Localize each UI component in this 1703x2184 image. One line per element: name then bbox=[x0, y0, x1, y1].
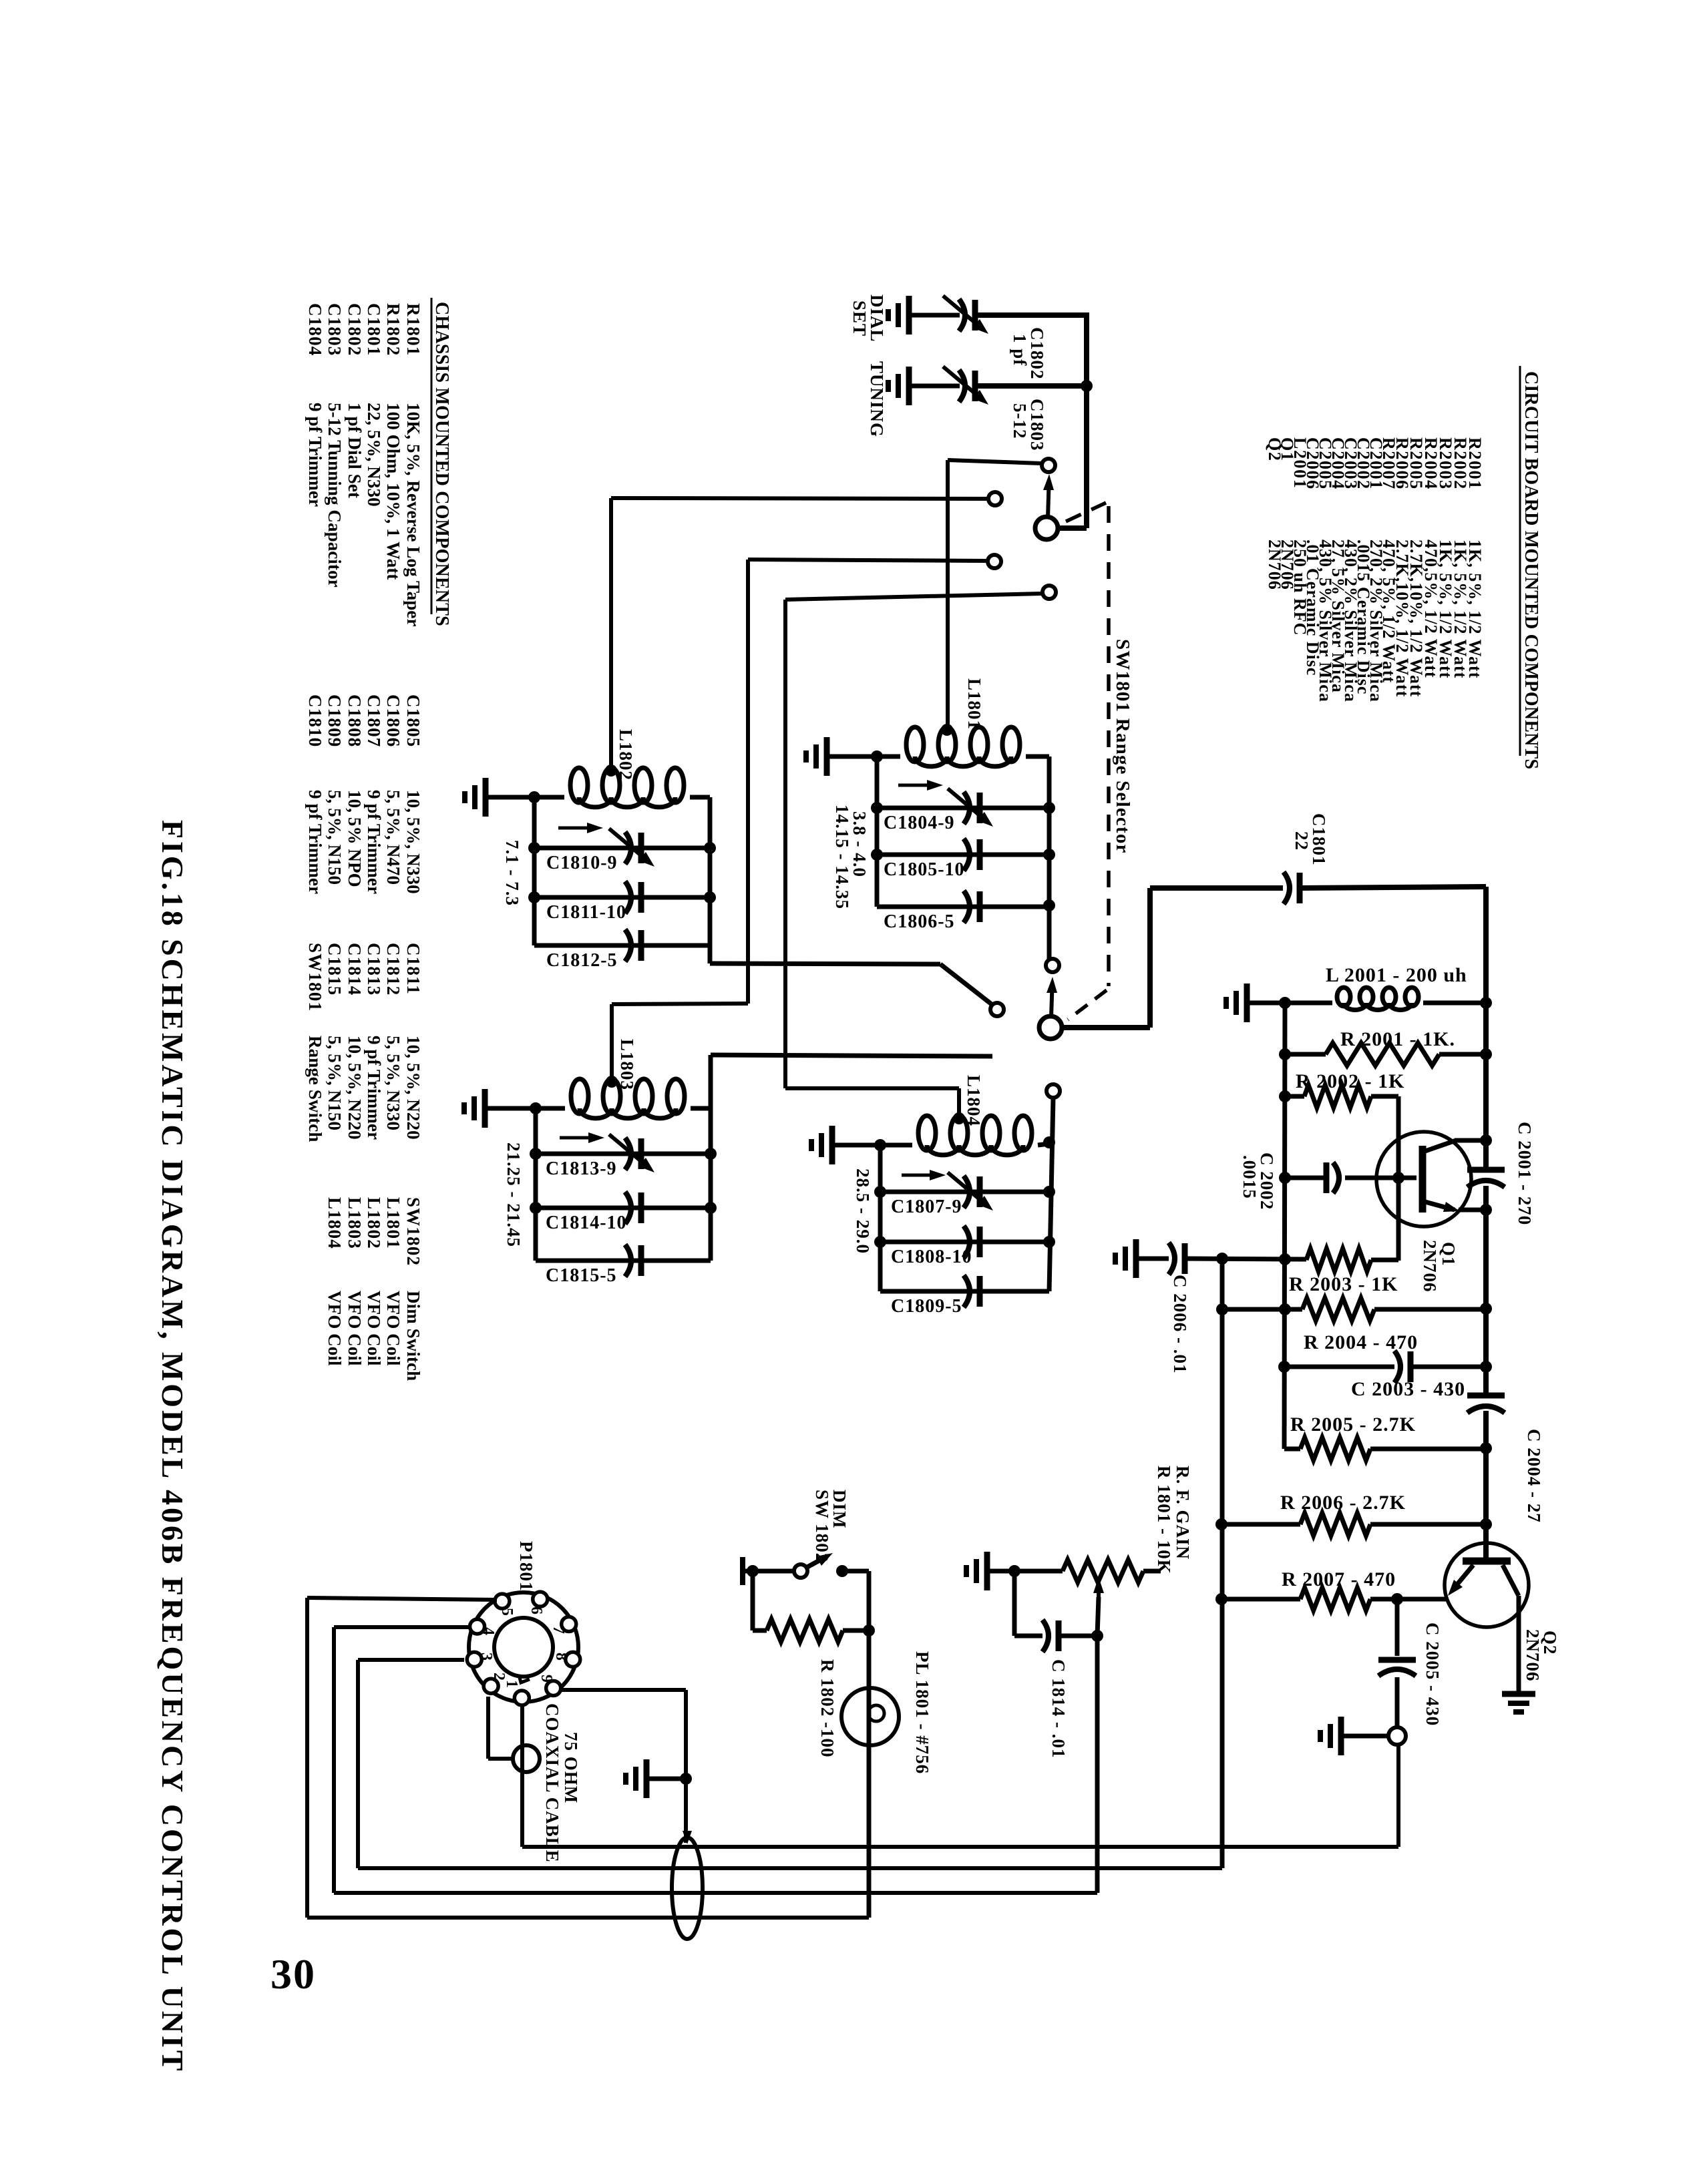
svg-text:SW1801 Range Selector: SW1801 Range Selector bbox=[1112, 639, 1133, 854]
row R2003 / C2006 bbox=[1133, 1239, 1139, 1278]
resistor R2004 470 bbox=[1302, 1298, 1374, 1321]
svg-text:2N706: 2N706 bbox=[1420, 1240, 1440, 1293]
pin 1 P1801 bbox=[514, 1691, 529, 1705]
switch SW1801 dashed gang link bbox=[1107, 506, 1111, 986]
wire pin1 coax center bbox=[520, 1707, 524, 1847]
potentiometer R1801 10K bbox=[1063, 1560, 1143, 1582]
svg-text:R 2007 - 470: R 2007 - 470 bbox=[1282, 1568, 1396, 1590]
capacitor C2005 430 bbox=[1395, 1599, 1400, 1656]
switch SW1801a rotor bbox=[1035, 517, 1058, 539]
svg-text:SET: SET bbox=[849, 300, 870, 337]
svg-text:C1808-10: C1808-10 bbox=[891, 1247, 972, 1267]
svg-text:C1805-10: C1805-10 bbox=[884, 859, 965, 880]
capacitor C1814-10 bbox=[536, 1206, 711, 1211]
wire bbox=[975, 312, 1087, 318]
svg-text:9 pf Trimmer: 9 pf Trimmer bbox=[364, 790, 384, 894]
svg-text:. R 2001 - 1K.: . R 2001 - 1K. bbox=[1329, 1028, 1455, 1050]
svg-text:75 OHM: 75 OHM bbox=[561, 1732, 581, 1803]
svg-text:R1802: R1802 bbox=[383, 303, 403, 357]
svg-text:C1809: C1809 bbox=[325, 694, 345, 748]
capacitor C1809-5 bbox=[880, 1289, 1049, 1294]
ground Q2 bbox=[1502, 1691, 1535, 1697]
ground L1804 bbox=[829, 1126, 835, 1164]
svg-text:R 2002 - 1K: R 2002 - 1K bbox=[1296, 1070, 1405, 1092]
trimmer capacitor C1802 bbox=[959, 299, 965, 331]
svg-text:L1804: L1804 bbox=[325, 1197, 345, 1249]
pin 7 P1801 bbox=[562, 1616, 576, 1631]
svg-text:L1802: L1802 bbox=[364, 1197, 384, 1249]
svg-text:C1806: C1806 bbox=[383, 694, 403, 748]
ground L1803 bbox=[482, 1089, 488, 1128]
svg-text:22: 22 bbox=[1292, 831, 1312, 851]
pin 9 P1801 bbox=[546, 1681, 561, 1695]
svg-text:L1803: L1803 bbox=[617, 1039, 637, 1090]
svg-text:R 1802 -100: R 1802 -100 bbox=[817, 1659, 837, 1758]
capacitor C2006 .01 bbox=[1169, 1243, 1175, 1275]
svg-text:L1803: L1803 bbox=[345, 1197, 365, 1249]
svg-text:C1811-10: C1811-10 bbox=[546, 902, 626, 923]
svg-text:5-12 Tunning Capacitor: 5-12 Tunning Capacitor bbox=[325, 403, 345, 588]
capacitor C1812-5 bbox=[534, 943, 710, 948]
capacitor C2001 270 bbox=[1467, 1167, 1505, 1173]
svg-text:FIG.18 SCHEMATIC DIAGRAM, MODE: FIG.18 SCHEMATIC DIAGRAM, MODEL 406B FRE… bbox=[156, 820, 190, 2073]
right rail bbox=[1047, 756, 1052, 959]
wire pin2 to shield bbox=[486, 1697, 490, 1759]
svg-text:C1804-9: C1804-9 bbox=[884, 813, 955, 833]
svg-text:14.15 - 14.35: 14.15 - 14.35 bbox=[832, 805, 852, 909]
resistor R2007 470 bbox=[1300, 1588, 1370, 1610]
svg-text:L1801: L1801 bbox=[383, 1197, 403, 1249]
right rail bbox=[708, 797, 713, 963]
svg-text:3: 3 bbox=[478, 1653, 495, 1661]
left rail B2 bbox=[1220, 1259, 1225, 1868]
svg-text:L1801: L1801 bbox=[964, 678, 984, 730]
svg-text:.0015: .0015 bbox=[1240, 1155, 1260, 1199]
svg-text:C1813-9: C1813-9 bbox=[546, 1158, 617, 1179]
svg-text:C1810-9: C1810-9 bbox=[546, 853, 618, 873]
trimmer C1804-9 bbox=[877, 806, 1049, 811]
svg-text:C1807-9: C1807-9 bbox=[891, 1196, 962, 1217]
resistor R2006 2.7K bbox=[1300, 1513, 1370, 1536]
ground shield bbox=[644, 1759, 650, 1798]
svg-text:Range Switch: Range Switch bbox=[305, 1036, 325, 1142]
pin 6 P1801 bbox=[533, 1592, 548, 1606]
wire pin9 to ground bbox=[562, 1688, 686, 1692]
alignment arrow bbox=[560, 1136, 598, 1140]
svg-text:9 pf Trimmer: 9 pf Trimmer bbox=[364, 1036, 384, 1140]
svg-text:9: 9 bbox=[538, 1675, 555, 1683]
alignment arrow bbox=[558, 827, 596, 830]
resistor R2005 2.7K bbox=[1300, 1438, 1370, 1460]
svg-text:100 Ohm, 10%, 1 Watt: 100 Ohm, 10%, 1 Watt bbox=[383, 403, 403, 580]
svg-text:R 1801 - 10K: R 1801 - 10K bbox=[1154, 1466, 1174, 1574]
lamp PL1801 #756 bbox=[841, 1688, 899, 1745]
svg-text:Q1: Q1 bbox=[1439, 1242, 1459, 1267]
svg-text:C1806-5: C1806-5 bbox=[884, 911, 955, 932]
capacitor C1811-10 bbox=[534, 895, 710, 900]
left rail bbox=[534, 1108, 538, 1261]
contact to L1802 tap bbox=[988, 492, 1002, 505]
svg-text:R 2004 - 470: R 2004 - 470 bbox=[1304, 1331, 1418, 1353]
coil L1801 bbox=[906, 727, 924, 762]
contact from L1801 rail bbox=[1046, 959, 1059, 972]
svg-text:9 pf Trimmer: 9 pf Trimmer bbox=[305, 403, 325, 507]
wire R2002/R2003 to base bbox=[1396, 1096, 1401, 1261]
coax shield ring bbox=[513, 1745, 540, 1772]
trimmer C1813-9 bbox=[536, 1152, 711, 1156]
right rail bbox=[1049, 1098, 1053, 1291]
pin 4 P1801 bbox=[470, 1619, 485, 1634]
svg-text:C1805: C1805 bbox=[403, 694, 423, 748]
resistor R1802 100 bbox=[751, 1571, 755, 1630]
inductor L2001 250uh RFC bbox=[1337, 988, 1350, 1006]
trimmer C1810-9 bbox=[534, 846, 710, 851]
svg-text:10, 5%, N330: 10, 5%, N330 bbox=[403, 790, 423, 894]
trimmer C1807-9 bbox=[880, 1190, 1049, 1194]
svg-text:VFO Coil: VFO Coil bbox=[345, 1291, 365, 1366]
svg-text:C 2005 - 430: C 2005 - 430 bbox=[1423, 1622, 1443, 1726]
svg-text:C1802: C1802 bbox=[345, 303, 365, 357]
ground tuning bbox=[906, 367, 912, 405]
svg-text:COAXIAL CABLE: COAXIAL CABLE bbox=[542, 1703, 562, 1863]
svg-text:C1814: C1814 bbox=[345, 943, 365, 996]
left rail bbox=[875, 756, 880, 907]
ground dial set bbox=[906, 296, 912, 335]
svg-text:C1813: C1813 bbox=[364, 943, 384, 996]
wire C1814 down bbox=[1095, 1636, 1100, 1893]
svg-text:30: 30 bbox=[270, 1950, 316, 1998]
svg-text:C1814-10: C1814-10 bbox=[546, 1213, 627, 1233]
svg-text:CHASSIS MOUNTED COMPONENTS: CHASSIS MOUNTED COMPONENTS bbox=[431, 302, 452, 626]
svg-text:SW 1802: SW 1802 bbox=[812, 1490, 832, 1562]
svg-text:R1801: R1801 bbox=[403, 303, 423, 357]
svg-text:5, 5%, N150: 5, 5%, N150 bbox=[325, 790, 345, 885]
svg-text:L1802: L1802 bbox=[616, 729, 636, 781]
contact to L1804 tap bbox=[1043, 586, 1056, 599]
svg-text:8: 8 bbox=[552, 1653, 570, 1661]
transistor Q1 2N706 bbox=[1376, 1132, 1471, 1227]
svg-text:Dim Switch: Dim Switch bbox=[403, 1291, 423, 1381]
svg-text:C1815: C1815 bbox=[325, 943, 345, 996]
svg-text:C 1814 - .01: C 1814 - .01 bbox=[1049, 1659, 1069, 1759]
svg-text:1 pf: 1 pf bbox=[1010, 334, 1030, 366]
svg-text:Q2: Q2 bbox=[1265, 437, 1284, 461]
right rail bbox=[709, 1055, 713, 1261]
svg-text:6: 6 bbox=[528, 1606, 545, 1614]
terminal circle C2005 bbox=[1388, 1727, 1406, 1745]
svg-text:C1809-5: C1809-5 bbox=[891, 1296, 962, 1317]
svg-text:C 2001 - 270: C 2001 - 270 bbox=[1515, 1122, 1535, 1225]
svg-text:5-12: 5-12 bbox=[1010, 403, 1030, 439]
collector to ground bbox=[1503, 1565, 1519, 1596]
capacitor C2002 .0015 bbox=[1285, 1176, 1326, 1180]
contact to L1801 tap bbox=[1042, 459, 1055, 472]
contact to L1803 tap bbox=[988, 555, 1001, 568]
svg-text:C1808: C1808 bbox=[345, 694, 365, 748]
svg-text:1: 1 bbox=[503, 1680, 520, 1688]
svg-text:VFO Coil: VFO Coil bbox=[383, 1291, 403, 1366]
svg-text:C 2003 - 430: C 2003 - 430 bbox=[1351, 1378, 1465, 1400]
wire tank to switch contact bbox=[711, 1055, 992, 1056]
capacitor C1814 .01 bbox=[1012, 1571, 1017, 1636]
svg-text:2: 2 bbox=[490, 1673, 508, 1681]
wire vertical rail to rotor bbox=[1084, 312, 1089, 528]
svg-text:10K, 5%, Reverse Log Taper: 10K, 5%, Reverse Log Taper bbox=[403, 403, 423, 627]
pin 2 P1801 bbox=[484, 1679, 498, 1693]
coil L1803 bbox=[571, 1079, 588, 1114]
svg-text:10, 5%, N220: 10, 5%, N220 bbox=[403, 1036, 423, 1140]
alignment arrow bbox=[898, 784, 936, 787]
alignment arrow bbox=[902, 1174, 939, 1177]
svg-text:C1810: C1810 bbox=[305, 694, 325, 748]
cable bundle bbox=[672, 1837, 703, 1939]
svg-text:10, 5%, N220: 10, 5%, N220 bbox=[345, 1036, 365, 1140]
capacitor C2003 430 bbox=[1284, 1365, 1394, 1369]
svg-text:22, 5%, N330: 22, 5%, N330 bbox=[364, 403, 384, 507]
svg-text:28.5 - 29.0: 28.5 - 29.0 bbox=[853, 1168, 873, 1254]
svg-text:CIRCUIT BOARD MOUNTED COMPONEN: CIRCUIT BOARD MOUNTED COMPONENTS bbox=[1521, 371, 1541, 769]
svg-text:4: 4 bbox=[480, 1627, 497, 1635]
ground C2005 bbox=[1338, 1717, 1344, 1755]
contact to L1804 rail bbox=[1047, 1084, 1060, 1098]
pin 3 P1801 bbox=[467, 1652, 482, 1667]
svg-text:SW1802: SW1802 bbox=[403, 1197, 423, 1266]
svg-text:L 2001 - 200 uh: L 2001 - 200 uh bbox=[1326, 964, 1467, 986]
left rail bbox=[878, 1145, 883, 1291]
coil L1802 bbox=[570, 768, 588, 803]
wire pin4 loop bbox=[334, 1625, 471, 1629]
capacitor C1805-10 bbox=[877, 853, 1049, 857]
pin 8 P1801 bbox=[566, 1652, 580, 1667]
wire bbox=[975, 383, 1087, 389]
resistor R2001 1K bbox=[1326, 1043, 1439, 1066]
capacitor C1808-10 bbox=[880, 1240, 1049, 1245]
svg-text:7: 7 bbox=[550, 1626, 567, 1634]
svg-text:C1815-5: C1815-5 bbox=[546, 1265, 617, 1286]
svg-text:2N706: 2N706 bbox=[1265, 539, 1284, 590]
tuning capacitor C1803 bbox=[959, 370, 965, 402]
svg-text:L1804: L1804 bbox=[964, 1075, 984, 1126]
ground L1802 bbox=[483, 778, 489, 817]
svg-text:9 pf Trimmer: 9 pf Trimmer bbox=[305, 790, 325, 894]
wiper arrow bbox=[1097, 1584, 1101, 1597]
capacitor C1806-5 bbox=[877, 905, 1049, 909]
wire rotor to C1801 bbox=[1062, 1025, 1150, 1030]
svg-text:5, 5%, N330: 5, 5%, N330 bbox=[383, 1036, 403, 1130]
transistor Q2 2N706 bbox=[1445, 1543, 1529, 1627]
svg-text:C1811: C1811 bbox=[403, 943, 423, 995]
left rail bbox=[532, 797, 537, 945]
svg-text:R 2006 - 2.7K: R 2006 - 2.7K bbox=[1280, 1492, 1406, 1514]
ground L1801 bbox=[824, 737, 830, 776]
ground L2001 bbox=[1244, 984, 1250, 1022]
switch SW1802 DIM bbox=[794, 1564, 807, 1578]
svg-text:C1812: C1812 bbox=[383, 943, 403, 996]
svg-text:10, 5% NPO: 10, 5% NPO bbox=[345, 790, 365, 887]
svg-text:21.25 - 21.45: 21.25 - 21.45 bbox=[504, 1142, 524, 1247]
svg-text:C 2004 - 27: C 2004 - 27 bbox=[1524, 1429, 1544, 1523]
svg-text:5, 5%, N150: 5, 5%, N150 bbox=[325, 1036, 345, 1130]
ground RF gain bbox=[984, 1552, 990, 1590]
svg-text:2N706: 2N706 bbox=[1523, 1629, 1543, 1682]
capacitor C1815-5 bbox=[536, 1259, 711, 1263]
svg-text:R 2003 - 1K: R 2003 - 1K bbox=[1289, 1273, 1398, 1295]
coil L1804 bbox=[918, 1116, 936, 1150]
svg-text:R. F. GAIN: R. F. GAIN bbox=[1173, 1466, 1193, 1560]
svg-text:PL 1801 - #756: PL 1801 - #756 bbox=[912, 1651, 932, 1774]
wire tank to switch contact bbox=[710, 963, 940, 964]
switch SW1801b contact from L1802 bbox=[990, 1003, 1004, 1016]
svg-text:TUNING: TUNING bbox=[867, 361, 887, 437]
svg-text:C1812-5: C1812-5 bbox=[546, 950, 618, 971]
plug P1801 body bbox=[469, 1592, 578, 1702]
svg-text:SW1801: SW1801 bbox=[305, 943, 325, 1012]
svg-text:5, 5%, N470: 5, 5%, N470 bbox=[383, 790, 403, 885]
wire pin5 loop bbox=[307, 1598, 497, 1600]
resistor R2002 1K bbox=[1304, 1085, 1371, 1108]
wire pin3 loop bbox=[358, 1658, 464, 1662]
terminal stub bbox=[740, 1557, 745, 1585]
svg-text:R 2005 - 2.7K: R 2005 - 2.7K bbox=[1290, 1413, 1416, 1436]
svg-text:VFO Coil: VFO Coil bbox=[364, 1291, 384, 1366]
svg-text:C1804: C1804 bbox=[305, 303, 325, 357]
left rail B bbox=[1284, 1003, 1285, 1449]
resistor R2003 1K bbox=[1306, 1249, 1371, 1271]
svg-text:C1803: C1803 bbox=[325, 303, 345, 357]
pin 5 P1801 bbox=[495, 1594, 510, 1608]
capacitor C1801 22 bbox=[1284, 872, 1290, 904]
svg-text:C1807: C1807 bbox=[364, 694, 384, 748]
svg-text:VFO Coil: VFO Coil bbox=[325, 1291, 345, 1366]
rotor SW1801b bbox=[1039, 1016, 1062, 1039]
svg-text:C 2006 - .01: C 2006 - .01 bbox=[1170, 1275, 1190, 1374]
svg-text:C1801: C1801 bbox=[364, 303, 384, 357]
svg-text:P1801: P1801 bbox=[516, 1541, 536, 1592]
svg-text:1 pf Dial Set: 1 pf Dial Set bbox=[345, 403, 365, 498]
svg-text:5: 5 bbox=[498, 1608, 516, 1616]
capacitor C2004 27 bbox=[1467, 1393, 1505, 1399]
right rail bbox=[1483, 887, 1489, 1171]
svg-text:7.1 - 7.3: 7.1 - 7.3 bbox=[502, 840, 522, 906]
wire lamp rail bbox=[867, 1571, 872, 1918]
